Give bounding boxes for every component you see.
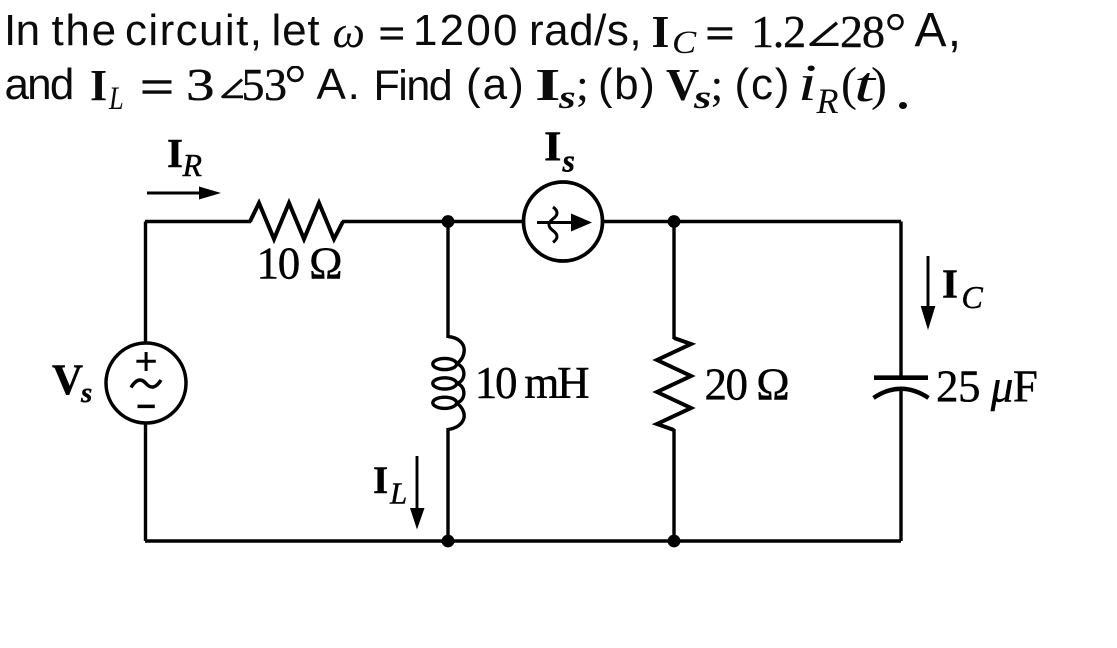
capacitor C top plate [874, 375, 928, 380]
junction node bottom 20Ω branch [668, 535, 681, 548]
voltage source sine tilde [131, 380, 161, 388]
wire left vertical lower segment [144, 422, 147, 541]
svg-text:I: I [544, 125, 562, 171]
svg-text:I: I [373, 459, 388, 502]
svg-text:10 mH: 10 mH [475, 358, 589, 408]
voltage source plus sign [136, 352, 155, 371]
junction node top inductor branch [442, 215, 455, 228]
svg-text:20 Ω: 20 Ω [705, 359, 789, 409]
wire inductor branch upper segment [446, 222, 449, 339]
voltage source Vs circle [106, 343, 186, 423]
svg-text:C: C [962, 279, 984, 315]
junction node bottom inductor branch [442, 535, 455, 548]
svg-text:25 μF: 25 μF [936, 362, 1037, 412]
wire 20Ω branch lower segment [672, 429, 675, 541]
wire top segment (current source to right corner) [602, 220, 901, 223]
wire right vertical lower segment [899, 391, 902, 541]
wire right vertical upper segment [899, 222, 902, 378]
junction node top 20Ω branch [668, 215, 681, 228]
inductor L coil [433, 337, 464, 430]
problem text line 1 [4, 30, 40, 32]
current source Is circle [524, 182, 603, 261]
wire left vertical upper segment [144, 222, 147, 345]
svg-text:10 Ω: 10 Ω [257, 239, 342, 289]
current arrow IL [410, 456, 425, 530]
svg-text:V: V [52, 357, 83, 404]
current source arrow shaft [537, 221, 578, 224]
voltage source minus sign [138, 405, 155, 409]
svg-text:R: R [182, 147, 203, 183]
current source squiggle [549, 207, 557, 242]
wire bottom horizontal segment [145, 539, 901, 542]
svg-text:I: I [167, 130, 183, 176]
resistor R 10Ω zigzag [250, 203, 343, 239]
svg-text:s: s [562, 143, 575, 179]
current arrow IC [921, 256, 936, 330]
wire 20Ω branch upper segment [672, 222, 675, 340]
current arrow IR [147, 187, 221, 200]
svg-text:I: I [942, 260, 958, 306]
svg-text:L: L [389, 476, 407, 511]
wire top-left horizontal segment [145, 220, 251, 223]
problem text line 2 [5, 84, 73, 86]
current source arrowhead [571, 214, 592, 232]
wire top middle segment (resistor to current source) [342, 220, 524, 223]
capacitor C bottom curved plate [874, 389, 929, 398]
svg-text:s: s [80, 377, 92, 409]
wire inductor branch lower segment [446, 428, 449, 541]
resistor 20Ω zigzag [657, 338, 691, 430]
